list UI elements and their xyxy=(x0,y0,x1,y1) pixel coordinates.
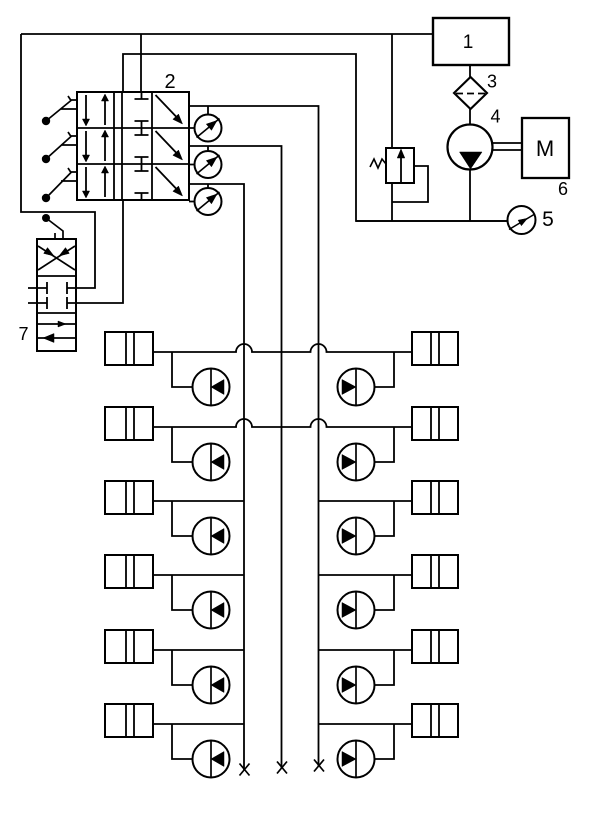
flow control 3 at valve 2 outlet xyxy=(195,188,222,215)
wire: top return line to tank xyxy=(21,33,433,35)
lever handle 1 of valve 2 xyxy=(46,96,77,121)
wire: motor feed left row 6 xyxy=(172,724,193,759)
svg-text:1: 1 xyxy=(463,32,474,53)
flow control 1 at valve 2 outlet xyxy=(195,115,222,142)
electric motor 6 xyxy=(522,118,569,178)
wire: tank line into valve block top (T port) xyxy=(140,34,142,92)
wire: motor feed left row 1 xyxy=(172,352,193,387)
wire: flow control 2 stubs xyxy=(189,146,208,165)
plugged end of bus C xyxy=(314,760,324,772)
brake cylinder left row 3 xyxy=(105,481,153,514)
valve 2 section 1 blocked port top xyxy=(135,92,149,99)
valve 2 section 3 down arrow xyxy=(85,167,87,192)
valve block 2 column dividers xyxy=(114,92,152,200)
svg-text:3: 3 xyxy=(487,72,497,92)
relief valve body xyxy=(386,148,414,183)
pilot valve 7 crossed arrows xyxy=(38,246,75,270)
svg-text:5: 5 xyxy=(542,208,554,231)
wire: row 5 right branch xyxy=(319,649,413,651)
wire: relief valve bypass loop xyxy=(392,166,428,202)
brake cylinder right row 1 xyxy=(412,332,458,365)
pilot valve 7 body xyxy=(37,239,76,351)
wire: row 3 right branch xyxy=(319,500,413,502)
pilot valve 7 blocked port right upper xyxy=(67,282,76,294)
wire: motor feed right row 5 xyxy=(375,650,395,685)
valve 2 section 1 down arrow xyxy=(85,95,87,120)
wire: row 4 left branch xyxy=(153,574,244,576)
wire: row 2 cross line with hops xyxy=(153,419,412,427)
pump 4 xyxy=(448,125,493,170)
valve 2 section 2 cross-flow arrow xyxy=(156,131,177,153)
wire: motor feed right row 4 xyxy=(375,575,395,610)
pilot valve 7 blocked port left lower xyxy=(28,297,47,309)
brake cylinder left row 4 xyxy=(105,555,153,588)
wire: pressure line from valve block top to bottom manifold xyxy=(123,54,508,221)
wire: left rail down to pilot valve 7 xyxy=(21,34,95,288)
valve 2 section 2 down arrow xyxy=(85,131,87,156)
valve 2 section 2 blocked port bottom xyxy=(135,157,149,164)
brake cylinder left row 1 xyxy=(105,332,153,365)
valve 2 section 3 blocked port top xyxy=(135,164,149,171)
wire: motor feed right row 2 xyxy=(375,427,395,462)
lever handle 3 of valve 2 xyxy=(46,168,77,198)
wire: flow control 3 stubs xyxy=(189,184,208,202)
wire: pump drain to manifold xyxy=(356,170,508,222)
wire: outlet line row3 to bus A xyxy=(189,184,244,770)
hydraulic motor right row 4 xyxy=(338,592,375,629)
valve 2 section 2 up arrow xyxy=(104,136,106,161)
pressure gauge 5 xyxy=(508,206,536,234)
svg-text:2: 2 xyxy=(164,71,175,93)
hydraulic motor left row 2 xyxy=(193,444,230,481)
svg-text:M: M xyxy=(536,136,554,161)
valve 2 section 1 up arrow xyxy=(104,100,106,125)
wire: row 5 left branch xyxy=(153,649,244,651)
svg-text:6: 6 xyxy=(558,179,568,199)
pilot valve 7 flow arrows xyxy=(37,323,75,325)
valve 2 section 1 cross-flow arrow xyxy=(156,95,177,117)
valve block 2 row dividers xyxy=(77,128,189,164)
wire: valve block bottom port to pilot valve 7 xyxy=(76,200,123,303)
drive shaft xyxy=(493,143,523,150)
brake cylinder left row 2 xyxy=(105,407,153,440)
wire: flow control 1 stubs xyxy=(189,106,208,128)
svg-text:7: 7 xyxy=(18,324,28,344)
pilot valve 7 blocked port right lower xyxy=(67,297,76,309)
hydraulic motor left row 1 xyxy=(193,369,230,406)
brake cylinder left row 6 xyxy=(105,704,153,737)
brake cylinder right row 6 xyxy=(412,704,458,737)
hydraulic motor right row 1 xyxy=(338,369,375,406)
wire: row 1 cross line with hops xyxy=(153,344,412,352)
wire: tank to filter xyxy=(469,65,471,77)
hydraulic motor left row 6 xyxy=(193,741,230,778)
valve block 2 outline xyxy=(77,92,189,200)
brake cylinder right row 4 xyxy=(412,555,458,588)
filter 3 xyxy=(454,77,487,109)
valve 2 section 3 blocked port bottom xyxy=(135,193,149,200)
wire: relief valve drain xyxy=(391,183,393,221)
flow control 2 at valve 2 outlet xyxy=(195,151,222,178)
wire: row 3 left branch xyxy=(153,500,244,502)
wire: outlet line row2 to bus B xyxy=(189,146,282,768)
valve 2 section 3 up arrow xyxy=(104,172,106,197)
relief valve spring xyxy=(370,159,386,168)
tank 1 xyxy=(433,18,509,65)
wire: motor feed right row 3 xyxy=(375,501,395,536)
hydraulic motor left row 5 xyxy=(193,667,230,704)
lever handle 2 of valve 2 xyxy=(46,132,77,159)
wire: motor feed right row 6 xyxy=(375,724,395,759)
wire: motor feed left row 4 xyxy=(172,575,193,610)
hydraulic motor left row 4 xyxy=(193,592,230,629)
wire: row 6 right branch xyxy=(319,723,413,725)
hydraulic motor right row 3 xyxy=(338,518,375,555)
wire: motor feed left row 5 xyxy=(172,650,193,685)
brake cylinder right row 2 xyxy=(412,407,458,440)
hydraulic motor right row 6 xyxy=(338,741,375,778)
valve 2 section 2 blocked port top xyxy=(135,128,149,135)
plugged end of bus A xyxy=(240,764,250,776)
hydraulic motor left row 3 xyxy=(193,518,230,555)
relief valve internal arrow xyxy=(400,157,402,183)
wire: motor feed right row 1 xyxy=(375,352,395,387)
wire: outlet line row1 to bus C xyxy=(189,106,319,766)
brake cylinder right row 3 xyxy=(412,481,458,514)
pilot valve 7 lever xyxy=(46,218,63,239)
hydraulic motor right row 2 xyxy=(338,444,375,481)
valve 2 section 1 blocked port bottom xyxy=(135,121,149,128)
brake cylinder left row 5 xyxy=(105,630,153,663)
plugged end of bus B xyxy=(277,762,287,774)
pilot valve 7 blocked port left upper xyxy=(28,282,47,294)
hydraulic motor right row 5 xyxy=(338,667,375,704)
svg-text:4: 4 xyxy=(490,107,500,127)
wire: relief valve riser xyxy=(391,34,393,148)
wire: filter to pump xyxy=(469,109,471,125)
brake cylinder right row 5 xyxy=(412,630,458,663)
wire: motor feed left row 2 xyxy=(172,427,193,462)
wire: motor feed left row 3 xyxy=(172,501,193,536)
wire: row 6 left branch xyxy=(153,723,244,725)
valve 2 section 3 cross-flow arrow xyxy=(156,167,177,189)
wire: row 4 right branch xyxy=(319,574,413,576)
